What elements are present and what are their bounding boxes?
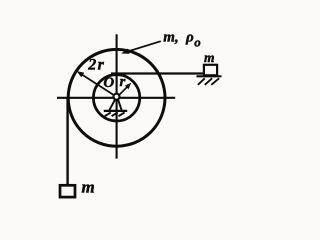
svg-text:m,: m, [163, 30, 178, 46]
svg-text:m: m [82, 178, 95, 197]
svg-text:o: o [194, 35, 201, 50]
svg-text:r: r [120, 74, 126, 90]
svg-text:O: O [103, 75, 114, 91]
svg-text:m: m [204, 50, 215, 65]
svg-text:2r: 2r [87, 56, 105, 73]
svg-text:ρ: ρ [185, 30, 194, 46]
